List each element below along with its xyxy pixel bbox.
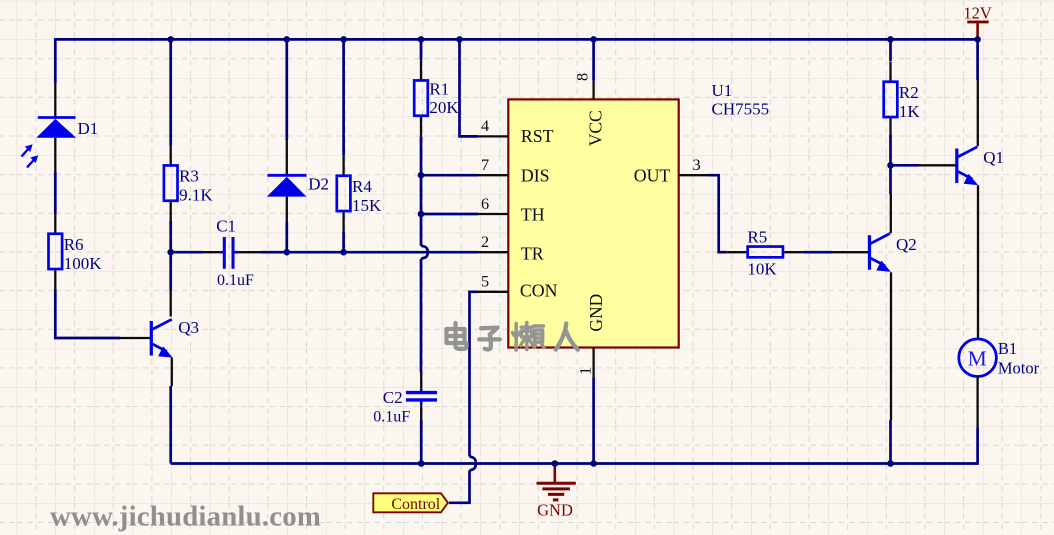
svg-text:B1: B1 xyxy=(998,339,1017,358)
svg-text:GND: GND xyxy=(537,501,573,520)
transistor Q2 NPN xyxy=(868,235,871,270)
svg-text:8: 8 xyxy=(573,73,592,81)
wire R6 to Q3 base xyxy=(55,289,120,338)
svg-text:D2: D2 xyxy=(308,175,329,194)
svg-text:RST: RST xyxy=(521,126,554,146)
capacitor C1 0.1uF xyxy=(219,251,223,254)
svg-text:Control: Control xyxy=(391,496,440,513)
svg-text:9.1K: 9.1K xyxy=(179,186,213,205)
wire R1 down to hop (DIS TH taps) xyxy=(420,136,423,246)
wire motor to bottom rail xyxy=(976,377,978,429)
ground GND symbol xyxy=(553,464,556,483)
wire top rail to R1 xyxy=(420,39,423,60)
motor B1 xyxy=(959,339,997,377)
wire Q2 collector to node xyxy=(890,194,892,233)
svg-text:7: 7 xyxy=(481,155,489,174)
wire GND pin 1 to bottom rail xyxy=(592,378,595,464)
svg-text:GND: GND xyxy=(586,294,606,332)
pin 4 RST xyxy=(478,135,508,137)
wire top rail to R3 xyxy=(169,39,172,145)
wire R1 line to TH pin 6 xyxy=(421,213,478,216)
wire hop over bottom rail xyxy=(470,457,476,471)
wire R3 to TR node xyxy=(169,221,172,252)
pin 5 CON xyxy=(478,291,508,293)
svg-text:D1: D1 xyxy=(78,119,99,138)
wire TR node to C1 xyxy=(171,251,203,254)
resistor R3 9.1K xyxy=(170,145,172,166)
wire hop over TR line xyxy=(421,246,428,259)
resistor R4 15K xyxy=(342,155,344,176)
junction dots top rail xyxy=(167,36,174,43)
svg-text:C1: C1 xyxy=(216,217,236,236)
wire Q1 emitter to motor xyxy=(977,185,979,339)
pin 3 OUT xyxy=(679,174,709,176)
pin 6 TH xyxy=(478,213,508,215)
svg-text:20K: 20K xyxy=(429,98,459,117)
svg-text:VCC: VCC xyxy=(586,110,606,146)
wire D2 to TR line xyxy=(285,222,288,252)
svg-text:R2: R2 xyxy=(899,83,919,102)
transistor Q3 NPN xyxy=(150,321,153,356)
pin 8 VCC xyxy=(592,81,594,100)
svg-text:10K: 10K xyxy=(747,260,777,279)
svg-text:Motor: Motor xyxy=(998,359,1040,378)
svg-text:CON: CON xyxy=(520,281,558,301)
wire R5 to Q2 base xyxy=(803,251,832,254)
svg-text:0.1uF: 0.1uF xyxy=(373,409,410,426)
svg-text:TR: TR xyxy=(521,243,544,263)
svg-text:Q2: Q2 xyxy=(896,235,917,254)
resistor R6 100K xyxy=(54,213,56,234)
svg-text:www.jichudianlu.com: www.jichudianlu.com xyxy=(50,501,321,533)
svg-text:R6: R6 xyxy=(64,235,84,254)
wire R4 to TR line xyxy=(342,231,345,252)
svg-text:OUT: OUT xyxy=(634,165,671,185)
transistor Q1 NPN xyxy=(955,149,958,184)
wire top power rail xyxy=(55,38,977,41)
svg-text:C2: C2 xyxy=(383,388,403,407)
svg-text:TH: TH xyxy=(521,205,545,225)
wire R1 line to DIS pin 7 xyxy=(421,174,478,177)
wire R2 to node xyxy=(889,135,892,165)
svg-text:4: 4 xyxy=(481,116,489,135)
wire Q3 emitter to bottom rail xyxy=(171,358,173,386)
svg-text:R4: R4 xyxy=(352,177,372,196)
wire left drop to D1 xyxy=(54,38,57,83)
svg-text:1: 1 xyxy=(576,367,595,375)
svg-text:DIS: DIS xyxy=(521,165,550,185)
power 12V symbol xyxy=(976,23,979,39)
svg-text:CH7555: CH7555 xyxy=(712,99,770,118)
wire CON pin 5 down to control flag xyxy=(470,292,479,457)
wire top rail to D2 xyxy=(285,39,288,140)
junction dot Q1 base node xyxy=(887,162,894,169)
wire node to Q1 base xyxy=(891,164,919,167)
svg-text:R3: R3 xyxy=(179,167,199,186)
svg-text:Q1: Q1 xyxy=(983,148,1004,167)
wire top rail to R4 xyxy=(342,39,345,155)
wire top rail to R2 xyxy=(889,39,892,61)
diode D1 photodiode xyxy=(54,83,56,118)
wire C1 to TR pin 2 xyxy=(239,251,261,253)
wire top rail to VCC pin 8 xyxy=(592,39,595,80)
pin 7 DIS xyxy=(478,174,508,176)
svg-text:M: M xyxy=(968,347,987,371)
wire TR node to Q3 collector xyxy=(169,252,172,290)
resistor R1 20K xyxy=(420,60,422,81)
pin 1 GND xyxy=(592,348,594,379)
capacitor C2 0.1uF xyxy=(420,373,422,389)
op IC U1 CH7555 body xyxy=(508,99,678,347)
resistor R2 1K xyxy=(889,61,891,82)
wire top rail to RST pin 4 xyxy=(460,39,479,136)
svg-text:1K: 1K xyxy=(899,102,921,121)
svg-text:0.1uF: 0.1uF xyxy=(217,272,254,289)
watermark chinese characters xyxy=(447,329,465,343)
svg-text:Q3: Q3 xyxy=(178,318,199,337)
svg-text:U1: U1 xyxy=(712,81,733,100)
svg-text:5: 5 xyxy=(481,272,489,291)
svg-text:100K: 100K xyxy=(64,254,102,273)
wire Q2 emitter to bottom rail xyxy=(890,272,892,420)
wire bottom ground rail xyxy=(171,462,978,465)
resistor R5 10K xyxy=(727,251,746,253)
junction dots bottom rail xyxy=(418,460,425,467)
port Control flag xyxy=(373,493,448,512)
diode D2 xyxy=(267,174,306,177)
svg-text:3: 3 xyxy=(693,155,701,174)
wire OUT pin 3 to R5 xyxy=(709,175,727,252)
svg-text:15K: 15K xyxy=(352,196,382,215)
junction dots TR line xyxy=(167,249,174,256)
svg-text:2: 2 xyxy=(481,232,489,251)
wire Q1 collector to 12V rail xyxy=(977,80,979,146)
wire hop to C2 xyxy=(420,259,423,373)
svg-text:6: 6 xyxy=(481,194,489,213)
svg-text:R1: R1 xyxy=(429,79,449,98)
svg-text:R5: R5 xyxy=(747,228,767,247)
wire D1 to R6 xyxy=(54,172,57,214)
junction dots R1 line xyxy=(418,172,425,179)
svg-text:12V: 12V xyxy=(963,3,992,22)
pin 2 TR xyxy=(478,251,508,253)
photodiode D1 light arrows xyxy=(22,147,31,157)
wire C2 to bottom rail xyxy=(420,420,423,464)
